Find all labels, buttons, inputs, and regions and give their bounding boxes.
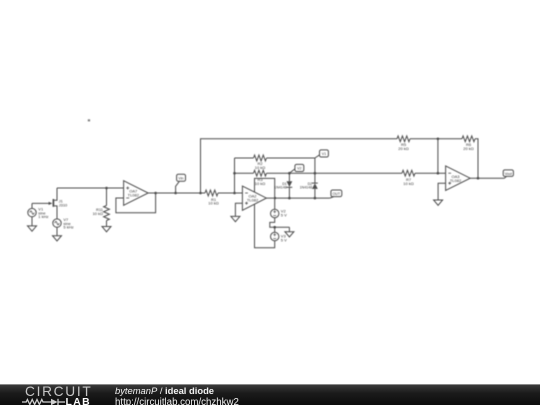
wire between R5 and R6 — [410, 138, 462, 140]
junction (V+ rail over output wire) — [274, 197, 276, 199]
svg-text:TL082: TL082 — [128, 193, 140, 198]
node (D2 top) — [314, 172, 317, 175]
flag Vin — [176, 174, 186, 193]
annotation dot — [88, 119, 90, 121]
ground (supply midpoint) — [285, 232, 294, 237]
wire op3 + input to ground — [438, 183, 446, 200]
svg-text:5 V: 5 V — [281, 237, 287, 242]
node (R11 top) — [105, 187, 108, 190]
svg-text:20 kΩ: 20 kΩ — [398, 146, 409, 151]
wire op2 V+ pin routing — [255, 178, 275, 209]
svg-text:10 kΩ: 10 kΩ — [208, 201, 219, 206]
footer bar — [0, 384, 540, 405]
flag V2 — [289, 164, 303, 173]
svg-text:1N4148: 1N4148 — [300, 186, 313, 190]
node (D1 anode at op2 output) — [288, 197, 291, 200]
ground (below V1) — [28, 226, 37, 231]
svg-text:Vin: Vin — [178, 176, 183, 180]
wire op2 output row — [266, 197, 329, 199]
svg-text:10 kΩ: 10 kΩ — [255, 165, 266, 170]
node (riser) — [199, 192, 202, 195]
svg-text:J310: J310 — [59, 202, 68, 207]
node (D2 anode at op2 output) — [314, 197, 317, 200]
wire R6 to output — [475, 139, 478, 178]
resistor R7 — [402, 170, 415, 186]
flag Vout — [503, 170, 513, 178]
node (R5/R6 tap) — [437, 138, 440, 141]
flag OUT — [330, 190, 342, 198]
wire node A riser — [234, 158, 236, 193]
svg-text:V1: V1 — [322, 152, 326, 156]
svg-text:TL082: TL082 — [450, 178, 462, 183]
svg-text:TL082: TL082 — [247, 198, 259, 203]
svg-text:Vout: Vout — [505, 172, 512, 176]
wire to mid ground — [288, 227, 290, 232]
resistor R1 — [205, 190, 219, 206]
wire op1 feedback loop — [116, 193, 156, 213]
svg-text:5 V: 5 V — [281, 212, 287, 217]
wire riser to top row — [201, 139, 398, 193]
node (D1 top) — [288, 172, 291, 175]
resistor R5 — [397, 136, 410, 151]
voltage source V2 (5V) — [271, 209, 288, 218]
voltage source V3 (5V) — [271, 232, 288, 242]
node (R3 tap on node A riser) — [233, 172, 236, 175]
node (op1 output) — [154, 192, 157, 195]
svg-text:5 kHz: 5 kHz — [63, 225, 73, 230]
wire op2 + input to ground — [235, 203, 242, 216]
wire op2 V- pin routing — [255, 204, 275, 248]
voltage source V7 — [53, 217, 74, 236]
wire R2 right drop — [314, 158, 316, 173]
ground (below V7) — [53, 236, 62, 241]
node A — [233, 192, 236, 195]
wire drain net — [57, 187, 124, 189]
wire op3 output — [470, 177, 504, 179]
ground (op3 +) — [434, 200, 443, 205]
wire V1 to JFET gate — [32, 202, 49, 204]
svg-text:V2: V2 — [297, 167, 301, 171]
wire supply midpoint jog — [270, 218, 290, 228]
node (op3 inverting input) — [437, 172, 440, 175]
resistor R3 row — [235, 170, 403, 186]
voltage source V1 — [28, 203, 49, 226]
op-amp OA3 — [446, 166, 471, 191]
node (flag Vin) — [174, 192, 177, 195]
resistor R2 row — [235, 155, 315, 170]
op-amp OA7 — [124, 181, 149, 206]
wire to V3 — [274, 227, 276, 232]
svg-text:10 kΩ: 10 kΩ — [92, 211, 103, 216]
resistor R6 — [462, 136, 475, 151]
node (supply midpoint) — [273, 226, 276, 229]
wire R7 to op3 — [415, 172, 446, 174]
diode D2 (1N4148) — [300, 173, 318, 198]
op-amp OA2 — [242, 186, 266, 210]
svg-text:20 kΩ: 20 kΩ — [463, 146, 474, 151]
svg-text:OUT: OUT — [333, 192, 341, 196]
ground (op2 +) — [231, 216, 240, 221]
diode D1 (1N4148) — [274, 173, 292, 198]
flag V1 — [315, 150, 329, 158]
resistor R11 — [92, 188, 109, 227]
wire op1 output row — [148, 192, 205, 194]
node (R6 feedback at op3 output) — [477, 177, 480, 180]
wire tap down to op3 - input — [437, 139, 439, 173]
svg-text:1N4148: 1N4148 — [274, 186, 287, 190]
svg-text:1 kHz: 1 kHz — [38, 214, 48, 219]
svg-text:10 kΩ: 10 kΩ — [403, 181, 414, 186]
ground (below R11) — [102, 227, 111, 232]
svg-text:10 kΩ: 10 kΩ — [255, 181, 266, 186]
transistor J1 (JFET J310) — [49, 188, 68, 219]
